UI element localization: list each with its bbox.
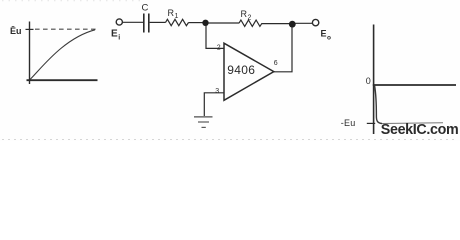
ground bar 1 [194,116,213,118]
left graph vertical axis [29,22,31,85]
svg-text:Ēu: Ēu [10,26,22,36]
svg-text:E: E [321,29,327,39]
right graph output spike curve [375,86,382,124]
input terminal Ei [116,19,122,25]
ground bar 2 [198,121,209,123]
svg-text:6: 6 [274,60,278,67]
resistor R1 [166,19,189,25]
left graph dashed asymptote [35,28,97,30]
svg-text:SeekIC.com: SeekIC.com [381,122,459,138]
node A junction dot [202,20,208,26]
capacitor C plate 2 [148,14,150,33]
svg-text:E: E [111,29,118,40]
capacitor C plate 1 [143,14,145,33]
svg-text:o: o [327,35,331,42]
scan noise top edge [2,0,140,2]
output terminal Eo [312,19,318,25]
node B junction dot [289,21,296,28]
ground bar 3 [202,126,206,128]
wire: R2 to node B [262,23,290,25]
svg-text:C: C [142,3,149,14]
scan noise bottom edge [2,139,458,141]
wire: node B to output terminal [296,22,313,24]
svg-text:2: 2 [248,15,252,22]
svg-text:R: R [241,9,248,19]
left graph charging curve [30,30,95,80]
wire: Ei to C [123,21,143,23]
wire: R1 to node A [189,22,204,24]
left graph horizontal axis [27,79,98,81]
op-amp U1 (9406) triangle [224,43,274,100]
right graph vertical axis [373,25,375,135]
svg-text:3: 3 [215,88,219,95]
wire: op-amp output up to node B [274,27,292,72]
svg-text:i: i [118,35,120,42]
resistor R2 [239,20,262,26]
right graph output curve tail [382,122,443,125]
svg-text:9406: 9406 [227,63,255,77]
svg-text:1: 1 [175,13,179,20]
right graph horizontal axis [373,84,456,86]
wire: C to R1 [150,21,166,23]
svg-text:-Eu: -Eu [341,118,356,128]
svg-text:2: 2 [217,45,221,52]
left graph Eu-level tick [26,28,34,30]
svg-text:0: 0 [366,76,371,86]
svg-text:R: R [168,8,175,18]
right graph -Eu tick [367,122,375,124]
wire: node A to R2 [209,22,240,24]
wire: node A down to op-amp pin 2 [206,26,224,48]
wire: pin 3 to ground [204,93,223,116]
